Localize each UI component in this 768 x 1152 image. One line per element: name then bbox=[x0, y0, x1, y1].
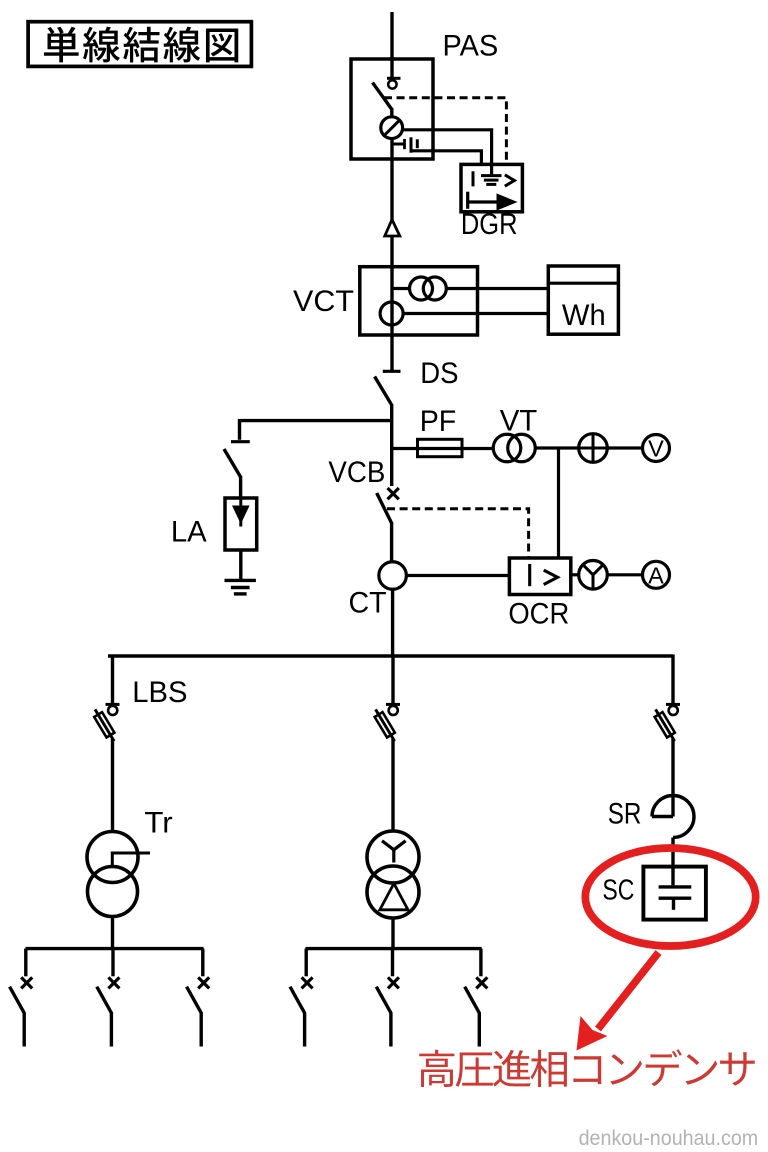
PAS control bar 1 bbox=[403, 139, 406, 149]
voltmeter V bbox=[643, 435, 670, 462]
middle feeder switch 2 bbox=[376, 949, 399, 1047]
middle distribution bar bbox=[306, 947, 482, 950]
wire main to VT bbox=[392, 447, 493, 450]
wire transformer to bar bbox=[391, 918, 394, 949]
CT circle bbox=[379, 562, 407, 590]
DGR I bar bbox=[472, 171, 475, 186]
delta mark bbox=[380, 884, 408, 910]
wire VCT vt to Wh bbox=[403, 312, 548, 315]
svg-text:DS: DS bbox=[420, 357, 458, 390]
Wh box divider bbox=[548, 282, 618, 285]
PF fuse box bbox=[418, 439, 463, 456]
title text 単線結線図 bbox=[44, 27, 238, 63]
wire PAS internal top bbox=[390, 59, 393, 77]
svg-text:VCT: VCT bbox=[293, 285, 354, 318]
wire DS to VCB bbox=[390, 404, 393, 486]
series reactor SR bbox=[652, 796, 694, 838]
wire CT to OCR bbox=[406, 574, 510, 577]
svg-text:Tr: Tr bbox=[144, 807, 172, 840]
cable head triangle bbox=[385, 220, 400, 237]
svg-text:PAS: PAS bbox=[443, 30, 499, 63]
main bus bar bbox=[108, 654, 673, 657]
LA blade bbox=[224, 449, 241, 477]
PAS switch contact circle bbox=[388, 80, 396, 88]
left feeder switch 2 bbox=[97, 949, 120, 1047]
wire branch to LA bbox=[240, 419, 393, 422]
capacitor top plate bbox=[659, 885, 692, 888]
wire LBS to transformer bbox=[391, 739, 394, 832]
wire OCR to switch bbox=[572, 573, 579, 576]
wire incoming feed bbox=[390, 12, 393, 60]
PAS control bar 2 bbox=[410, 137, 413, 152]
left distribution bar bbox=[26, 947, 204, 950]
svg-text:LA: LA bbox=[171, 516, 207, 549]
wire VT to switch bbox=[535, 446, 578, 449]
red text 高圧進相コンデンサ bbox=[419, 1049, 755, 1087]
LA ground symbol bbox=[225, 580, 256, 594]
left feeder switch 3 bbox=[187, 949, 210, 1047]
title box 単線結線図 bbox=[28, 22, 251, 67]
wire switch to V bbox=[607, 446, 642, 449]
wire VCB to CT bbox=[390, 522, 393, 562]
wire control to DGR bbox=[411, 151, 481, 166]
wire VCT ct to Wh bbox=[446, 287, 548, 290]
wire triangle to VCT bbox=[390, 236, 393, 267]
LBS switch-fuse middle bbox=[372, 655, 400, 744]
ammeter switch circle bbox=[579, 561, 608, 590]
svg-text:SC: SC bbox=[602, 874, 634, 906]
svg-text:LBS: LBS bbox=[132, 676, 187, 709]
red highlight ellipse bbox=[585, 848, 755, 946]
DGR greater-than bbox=[505, 175, 515, 186]
OCR I bar bbox=[528, 564, 531, 586]
svg-text:PF: PF bbox=[420, 405, 457, 438]
SC capacitor box bbox=[643, 867, 706, 920]
wire Tr to bar bbox=[111, 916, 114, 949]
ZCT circle bbox=[381, 117, 403, 139]
transformer Tr circles bbox=[87, 832, 138, 917]
svg-text:VCB: VCB bbox=[328, 456, 385, 489]
ZCT slash bbox=[383, 119, 400, 136]
wire ZCT to DGR bbox=[403, 130, 492, 176]
wire junction to OCR bbox=[557, 448, 560, 558]
VCT VT circle bbox=[380, 302, 403, 325]
Wh meter box bbox=[548, 266, 618, 334]
DGR relay box bbox=[461, 164, 522, 211]
svg-text:Wh: Wh bbox=[562, 299, 606, 332]
wire LBS to SR bbox=[671, 739, 674, 817]
PAS switch blade bbox=[373, 83, 392, 110]
LBS switch-fuse right bbox=[652, 655, 680, 744]
VT circles bbox=[493, 434, 535, 462]
svg-text:CT: CT bbox=[348, 586, 386, 619]
wire PAS blade to ZCT bbox=[390, 108, 393, 118]
Tr winding mark bbox=[112, 853, 150, 867]
svg-text:V: V bbox=[648, 436, 664, 462]
OCR greater-than bbox=[544, 570, 558, 584]
wire LBS to Tr bbox=[111, 739, 114, 832]
DS fixed contact tick bbox=[383, 370, 401, 373]
wire LA drop bbox=[238, 419, 241, 440]
svg-text:VT: VT bbox=[500, 405, 538, 438]
DGR ground symbol bbox=[481, 176, 502, 185]
PAS control bar 3 bbox=[416, 139, 419, 148]
VCT CT circles bbox=[410, 277, 447, 300]
wire VCT ct left bbox=[392, 287, 410, 290]
wire LA to ground bbox=[239, 550, 242, 580]
wire switch to A bbox=[607, 573, 642, 576]
PAS control stub wire bbox=[392, 143, 405, 146]
dashed wire PAS trip bbox=[384, 98, 506, 165]
LBS switch-fuse left bbox=[91, 655, 119, 744]
VCB blade bbox=[377, 493, 392, 523]
svg-text:DGR: DGR bbox=[461, 208, 518, 241]
red arrow bbox=[577, 953, 659, 1051]
VCT box bbox=[360, 267, 478, 335]
wire PAS internal bottom bbox=[390, 138, 393, 220]
VCB cross mark bbox=[388, 488, 399, 499]
dashed wire VCB trip bbox=[387, 509, 529, 557]
LA arrow bbox=[232, 498, 250, 527]
wire VCT main through bbox=[390, 267, 393, 371]
DGR arrow tick bbox=[466, 192, 469, 209]
wire LA blade to box bbox=[239, 476, 242, 498]
transformer Y-D circles bbox=[367, 831, 419, 918]
wire SR to capacitor bbox=[671, 838, 674, 886]
svg-text:denkou-nouhau.com: denkou-nouhau.com bbox=[579, 1126, 759, 1150]
capacitor bottom stub bbox=[672, 898, 675, 910]
left feeder switch 1 bbox=[10, 949, 33, 1047]
capacitor bottom plate bbox=[659, 897, 692, 900]
PAS switch fixed contact tick bbox=[387, 77, 401, 80]
DGR arrow head bbox=[497, 193, 518, 210]
OCR relay box bbox=[509, 558, 570, 595]
voltmeter switch circle bbox=[579, 434, 608, 463]
DS blade bbox=[375, 377, 392, 405]
svg-text:OCR: OCR bbox=[508, 597, 569, 630]
DGR arrow line bbox=[468, 200, 499, 203]
LA disconnect tick bbox=[231, 440, 250, 443]
svg-text:SR: SR bbox=[608, 798, 642, 831]
LA arrester box bbox=[225, 498, 257, 550]
svg-text:A: A bbox=[648, 562, 664, 588]
ammeter A bbox=[643, 561, 670, 588]
PAS enclosure box bbox=[351, 59, 433, 159]
wye mark bbox=[382, 841, 406, 863]
wire CT to bus bbox=[391, 589, 394, 657]
middle feeder switch 3 bbox=[465, 949, 488, 1047]
middle feeder switch 1 bbox=[290, 949, 313, 1047]
